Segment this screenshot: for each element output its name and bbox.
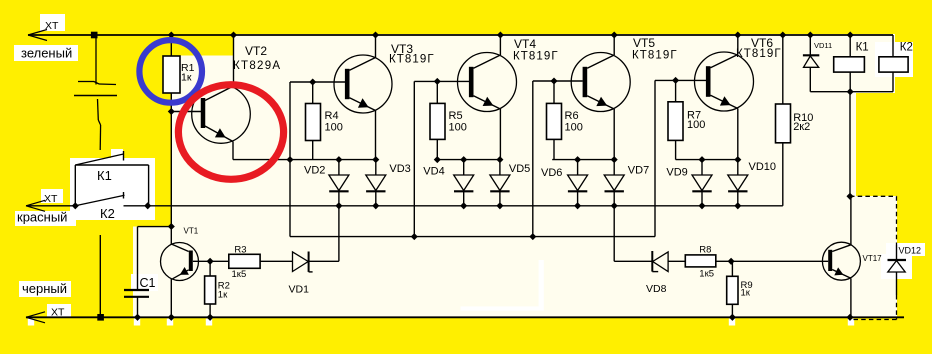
svg-text:красный: красный — [17, 210, 67, 225]
svg-text:100: 100 — [687, 119, 705, 131]
svg-text:КТ819Г: КТ819Г — [513, 51, 559, 63]
svg-text:VT17: VT17 — [863, 254, 883, 263]
svg-text:R6: R6 — [565, 110, 579, 122]
svg-text:100: 100 — [449, 122, 467, 134]
svg-text:VD3: VD3 — [389, 163, 410, 175]
svg-text:черный: черный — [22, 281, 67, 296]
svg-text:1к: 1к — [218, 290, 228, 301]
svg-text:КТ819Г: КТ819Г — [736, 48, 782, 60]
svg-text:1к: 1к — [741, 288, 751, 299]
svg-text:К2: К2 — [100, 206, 115, 221]
svg-text:КТ819Г: КТ819Г — [389, 54, 435, 66]
svg-text:VD4: VD4 — [423, 166, 444, 178]
svg-text:100: 100 — [325, 122, 343, 134]
svg-text:VT1: VT1 — [184, 227, 199, 236]
svg-text:VD12: VD12 — [899, 246, 922, 256]
svg-text:VD8: VD8 — [646, 283, 667, 295]
svg-text:R5: R5 — [449, 110, 463, 122]
svg-text:2к2: 2к2 — [793, 121, 810, 133]
svg-text:VD5: VD5 — [509, 163, 530, 175]
svg-text:VD6: VD6 — [541, 167, 562, 179]
svg-text:К1: К1 — [856, 42, 869, 54]
svg-text:VD7: VD7 — [628, 165, 649, 177]
svg-text:VD1: VD1 — [289, 283, 310, 295]
svg-text:К2: К2 — [900, 42, 913, 54]
svg-text:VD9: VD9 — [666, 166, 687, 178]
svg-text:1к5: 1к5 — [699, 268, 714, 279]
svg-text:1к5: 1к5 — [232, 269, 247, 280]
svg-text:VT5: VT5 — [633, 36, 655, 50]
svg-text:VD2: VD2 — [304, 165, 325, 177]
svg-text:C1: C1 — [140, 276, 156, 290]
svg-text:VD11: VD11 — [814, 41, 832, 50]
svg-text:XT: XT — [51, 307, 65, 319]
svg-text:R8: R8 — [699, 244, 711, 255]
svg-text:КТ829А: КТ829А — [233, 60, 281, 72]
svg-text:КТ819Г: КТ819Г — [632, 50, 678, 62]
svg-text:R4: R4 — [325, 110, 339, 122]
svg-text:VT4: VT4 — [514, 37, 536, 51]
svg-text:VD10: VD10 — [749, 161, 777, 173]
svg-text:XT: XT — [44, 193, 58, 205]
svg-text:VT2: VT2 — [245, 44, 267, 58]
svg-text:XT: XT — [45, 20, 59, 32]
svg-text:1к: 1к — [181, 72, 192, 84]
svg-text:R3: R3 — [234, 244, 246, 255]
svg-text:зеленый: зеленый — [21, 46, 72, 61]
svg-text:К1: К1 — [97, 168, 112, 183]
svg-text:100: 100 — [565, 122, 583, 134]
